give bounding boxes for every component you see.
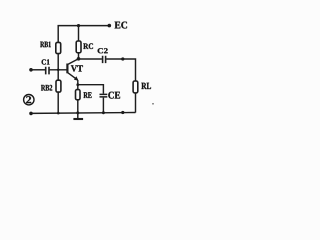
label CE bbox=[108, 92, 120, 99]
transistor VT collector diagonal bbox=[68, 59, 79, 65]
transistor VT emitter arrowhead bbox=[74, 76, 79, 81]
wire RL bottom lead bbox=[135, 93, 137, 113]
label RB1 bbox=[40, 42, 51, 48]
wire emitter to CE bbox=[78, 85, 104, 94]
wire input to C1 bbox=[31, 69, 46, 71]
resistor RE bbox=[76, 90, 81, 100]
label RC bbox=[83, 43, 93, 49]
capacitor C2 bbox=[103, 56, 106, 63]
wire top supply rail and left rail bbox=[58, 26, 109, 113]
node EC terminal dot bbox=[108, 24, 112, 28]
node emitter junction dot bbox=[76, 83, 79, 86]
capacitor CE bbox=[100, 94, 108, 97]
wire bottom rail bbox=[31, 112, 136, 115]
node input terminal dot bbox=[29, 68, 33, 72]
label C1 bbox=[42, 59, 50, 64]
node junction dot RC top bbox=[77, 24, 80, 27]
transistor VT emitter diagonal bbox=[68, 73, 78, 80]
node output dot top bbox=[121, 57, 124, 60]
wire CE bottom lead bbox=[102, 98, 104, 113]
resistor RC bbox=[76, 41, 81, 53]
ground stub bbox=[77, 113, 79, 118]
node collector junction dot bbox=[77, 57, 81, 61]
speck bbox=[152, 103, 154, 105]
node bottom input terminal dot bbox=[29, 112, 33, 116]
node junction dot RE bottom bbox=[76, 111, 79, 114]
transistor VT base bar bbox=[66, 64, 68, 74]
wire C2 to RL branch bbox=[106, 59, 135, 81]
capacitor C1 bbox=[46, 67, 49, 75]
node output dot bottom bbox=[121, 111, 124, 114]
resistor RL bbox=[133, 81, 138, 93]
label C2 bbox=[98, 48, 108, 53]
wire collector lead through RC bbox=[78, 26, 80, 59]
label RE bbox=[84, 92, 92, 98]
ground bar bbox=[73, 118, 83, 120]
label RB2 bbox=[41, 85, 52, 91]
resistor RB2 bbox=[56, 80, 61, 92]
wire collector to C2 bbox=[79, 58, 102, 60]
label VT bbox=[71, 65, 83, 71]
node junction dot CE bottom bbox=[102, 111, 105, 114]
label EC bbox=[115, 22, 127, 29]
label RL bbox=[141, 83, 151, 89]
wire emitter vertical bbox=[77, 80, 79, 113]
node base junction dot bbox=[57, 69, 60, 72]
label circled 2 bbox=[24, 95, 34, 105]
node junction dot RB2 bottom bbox=[57, 112, 60, 115]
resistor RB1 bbox=[56, 42, 61, 53]
wire C1 to base bbox=[50, 69, 67, 71]
label c2digit bbox=[26, 96, 31, 103]
